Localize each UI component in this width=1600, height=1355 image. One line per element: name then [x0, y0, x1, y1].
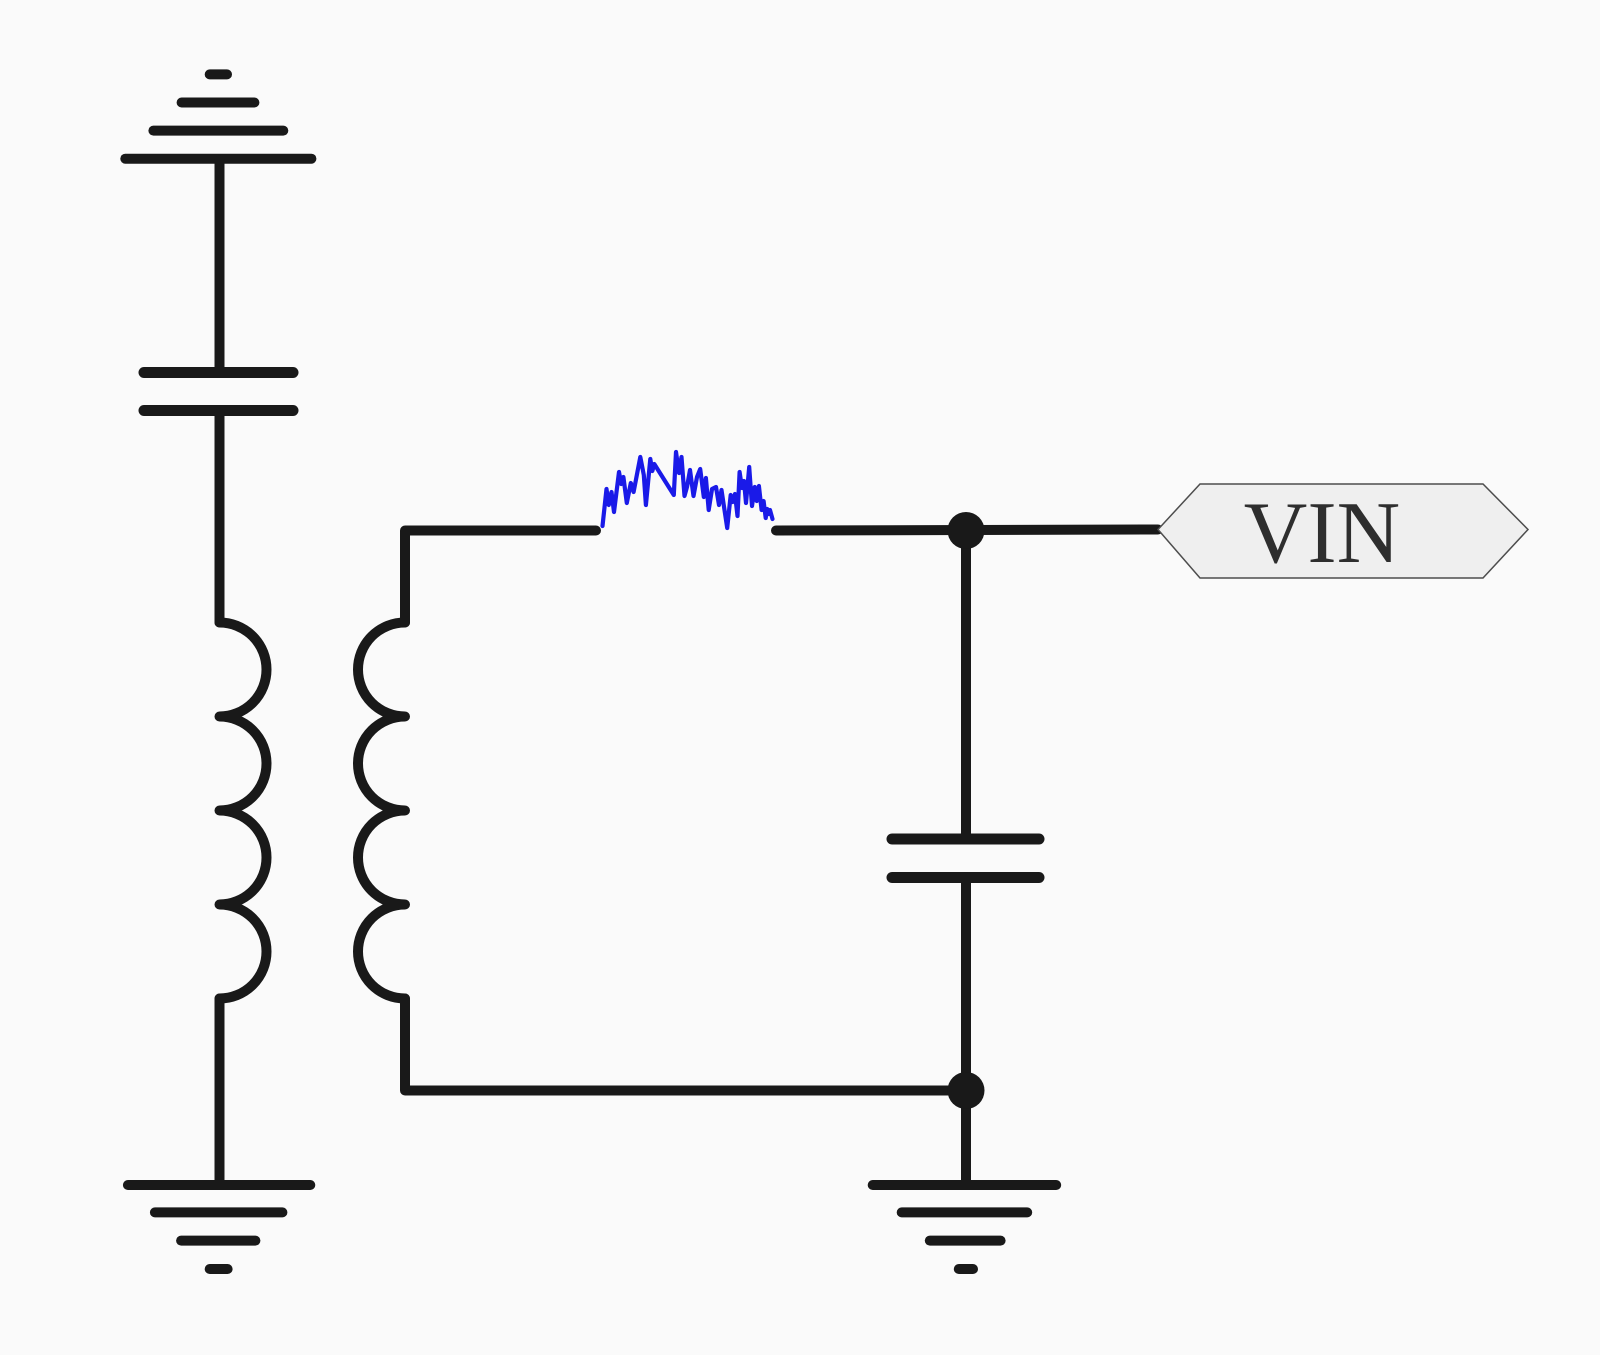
capacitor C2: [892, 839, 1039, 878]
svg-text:VIN: VIN: [1244, 485, 1400, 582]
wire: L2 top to scribble gap: [405, 531, 596, 623]
inductor L2 (transformer secondary winding): [358, 623, 405, 999]
net flag VIN (hexagonal label): [1158, 484, 1528, 582]
capacitor C1: [144, 373, 293, 411]
ground GND1 (inverted earth symbol, top): [125, 74, 311, 158]
noise scribble (blue, bridging wire gap): [603, 452, 773, 528]
wire: node A to C2: [961, 531, 971, 840]
wire: L1 to GND2: [215, 999, 225, 1185]
ground GND3 (bottom right): [873, 1185, 1056, 1269]
wire: node B to GND3: [961, 1091, 971, 1185]
inductor L1 (transformer primary winding): [220, 623, 267, 999]
wire: C1 to L1: [215, 413, 225, 623]
node B (junction dot): [948, 1072, 985, 1109]
wire: C2 to node B: [961, 878, 971, 1091]
node A (junction dot): [948, 512, 985, 549]
wire: scribble to node A and VIN: [776, 530, 1158, 531]
wire: GND1 to C1: [215, 160, 225, 369]
wire: L2 bottom to node B: [405, 999, 966, 1091]
ground GND2 (bottom left): [128, 1185, 310, 1269]
